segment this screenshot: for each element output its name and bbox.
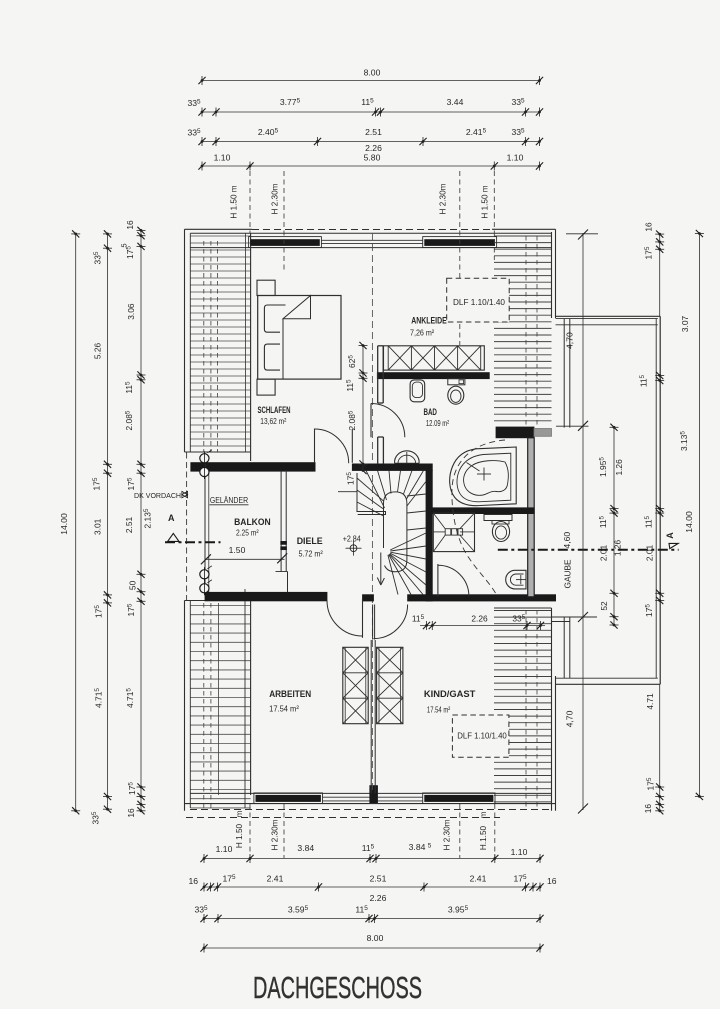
svg-text:13,62 m²: 13,62 m² xyxy=(260,416,286,426)
svg-text:4,70: 4,70 xyxy=(565,710,575,727)
bottom dim line 8.00 xyxy=(204,947,540,949)
corner bathtub inner rim xyxy=(457,453,511,502)
top dim line 33.5/3.77.5/11.5/3.44/33.5 xyxy=(202,111,540,113)
svg-text:17.54 m²: 17.54 m² xyxy=(269,703,299,713)
wardrobe column right xyxy=(377,647,403,723)
main wall stub inside dormer top xyxy=(563,319,565,428)
right chain R2 lower xyxy=(659,684,661,811)
svg-text:+2.84: +2.84 xyxy=(343,534,361,544)
top wall second face line xyxy=(190,232,551,234)
lintel lines between top windows xyxy=(321,239,422,241)
bottom wall inner face line xyxy=(190,792,551,794)
wall tub north xyxy=(496,427,534,438)
svg-text:KIND/GAST: KIND/GAST xyxy=(424,689,476,700)
svg-text:2.01: 2.01 xyxy=(645,545,655,562)
center wall post bottom wall xyxy=(370,786,378,803)
door SCHLAFEN leaf and swing xyxy=(314,429,316,463)
svg-text:7,26 m²: 7,26 m² xyxy=(410,328,434,338)
top wall outer face line xyxy=(185,228,253,230)
right strip section boundary xyxy=(494,607,552,609)
wall DIELE south / ARBEITEN north west part xyxy=(205,592,327,601)
svg-text:4.71: 4.71 xyxy=(645,693,655,710)
wall WC north (below tub) xyxy=(432,508,534,514)
svg-text:1.50: 1.50 xyxy=(229,545,246,555)
svg-text:1.10: 1.10 xyxy=(216,844,233,854)
balcony door post marks xyxy=(281,541,287,544)
balcony dimension 1.50 line xyxy=(205,558,285,560)
left dim line 14.00 xyxy=(75,234,77,811)
wall stub between door1 and door2 xyxy=(363,595,374,601)
svg-text:DK VORDACH: DK VORDACH xyxy=(134,491,181,500)
bottom dim line 1.10/3.84/11.5/3.84.5/1.10 xyxy=(204,858,540,860)
svg-text:2.41: 2.41 xyxy=(470,874,487,884)
svg-text:H.1.50: H.1.50 xyxy=(479,825,488,850)
top dim line 8.00 xyxy=(202,80,540,82)
stair treads upper fan xyxy=(357,471,426,517)
svg-text:H 2.30m: H 2.30m xyxy=(443,819,452,850)
svg-text:14.00: 14.00 xyxy=(684,511,694,533)
svg-text:SCHLAFEN: SCHLAFEN xyxy=(258,405,291,416)
right dim line 14.00 outer xyxy=(698,234,700,797)
interior chain x=363 (62.5/11.5/2.08.5) xyxy=(362,346,364,471)
extension bar at R3 top tick xyxy=(566,233,598,235)
wardrobe ANKLEIDE dividers and X pattern xyxy=(388,346,481,370)
H 1.50 dashed line top left xyxy=(249,171,251,233)
shower pattern xyxy=(433,513,474,552)
bed outline xyxy=(258,296,341,380)
DK VORDACH dashed eave line xyxy=(186,453,188,601)
svg-text:8.00: 8.00 xyxy=(367,933,384,943)
roof hatch strip bottom-left xyxy=(191,606,251,808)
section arrow right xyxy=(669,543,678,548)
svg-text:2.51: 2.51 xyxy=(370,874,387,884)
window W2 top (ANKLEIDE window) xyxy=(423,237,497,248)
shower drain squares xyxy=(445,529,451,535)
left dim chain L3 xyxy=(140,230,142,810)
svg-text:3.01: 3.01 xyxy=(93,518,103,535)
top wall inner face line xyxy=(190,247,551,249)
bath dashed swing curve xyxy=(452,440,505,596)
svg-text:DLF 1.10/1.40: DLF 1.10/1.40 xyxy=(457,732,507,741)
wall stair east xyxy=(426,471,432,602)
svg-text:8.00: 8.00 xyxy=(364,68,381,78)
wall ARBEITEN/KIND north east part xyxy=(408,595,556,601)
H dashed lines bottom xyxy=(249,804,251,858)
wall balcony east (DIELE west) xyxy=(280,471,282,572)
svg-text:16: 16 xyxy=(126,808,136,818)
svg-text:3.84: 3.84 xyxy=(297,843,314,853)
right chain R2 upper on dormer wall xyxy=(659,234,661,316)
svg-text:BALKON: BALKON xyxy=(234,517,271,528)
ridge dashed line (Firstlinie) xyxy=(371,233,373,793)
toilet WC bowl xyxy=(492,522,509,542)
svg-text:1.26: 1.26 xyxy=(614,459,624,476)
svg-text:14.00: 14.00 xyxy=(59,513,69,535)
eave dashed line below bottom wall 2 xyxy=(186,817,500,819)
top dim line 33.5/2.40.5/2.51/2.41.5/33.5 xyxy=(202,141,540,143)
svg-text:16: 16 xyxy=(188,876,198,886)
svg-text:3.07: 3.07 xyxy=(680,316,690,333)
H 2.30 dashed line top right xyxy=(459,171,461,345)
pillow 1 xyxy=(264,305,285,332)
main wall stub inside dormer bottom xyxy=(563,617,565,678)
dormer east wall double line xyxy=(659,316,661,684)
DLF roof window box bottom xyxy=(452,715,509,757)
svg-text:5.72 m²: 5.72 m² xyxy=(298,548,322,558)
eave dashed line below bottom wall 1 xyxy=(190,809,553,811)
stair treads lower fan xyxy=(388,533,426,595)
svg-text:H 2.30m: H 2.30m xyxy=(271,183,280,214)
window W1 top (SCHLAFEN balcony window) xyxy=(249,237,322,248)
svg-text:2.25 m²: 2.25 m² xyxy=(236,528,259,538)
washbasin BAD xyxy=(410,380,425,402)
svg-text:DACHGESCHOSS: DACHGESCHOSS xyxy=(253,970,422,1005)
height line solid inside left strips xyxy=(217,241,219,452)
svg-text:H 2.30m: H 2.30m xyxy=(439,183,448,214)
H 1.50 dashed line top right xyxy=(493,171,495,260)
svg-text:H 1.50: H 1.50 xyxy=(235,823,244,848)
svg-text:2.01: 2.01 xyxy=(599,545,609,562)
svg-text:BAD: BAD xyxy=(423,407,437,418)
bottom dim line 33.5/3.59.5/11.5/3.95.5 xyxy=(204,918,540,920)
wardrobe column left xyxy=(343,647,368,723)
door BAD leaf and swing xyxy=(370,404,372,438)
svg-text:3.06: 3.06 xyxy=(126,303,136,320)
wall DIELE/stair north xyxy=(352,464,432,471)
svg-text:GAUBE: GAUBE xyxy=(562,559,572,588)
shower tray xyxy=(433,513,474,552)
stair inner boundary xyxy=(357,473,386,515)
wall ANKLEIDE/BAD horizontal xyxy=(377,373,489,379)
svg-text:3.44: 3.44 xyxy=(447,97,464,107)
corner bathtub outer xyxy=(450,447,517,506)
svg-text:2.26: 2.26 xyxy=(370,893,387,903)
svg-text:H 2.30m: H 2.30m xyxy=(271,819,280,850)
right line R3 4.70 vertical xyxy=(582,233,584,810)
wardrobe ANKLEIDE outline xyxy=(384,346,485,370)
svg-text:A: A xyxy=(665,532,675,539)
hand basin WC xyxy=(506,570,526,589)
window W3 bottom (ARBEITEN) xyxy=(254,793,323,804)
svg-text:2.26: 2.26 xyxy=(365,143,382,153)
svg-text:1.10: 1.10 xyxy=(214,153,231,163)
svg-text:5.26: 5.26 xyxy=(93,343,103,360)
left strip inner edge (knee wall) xyxy=(250,233,252,461)
bottom dim line 16/17.5/2.41/2.51/2.41/17.5/16 xyxy=(204,886,540,888)
roof hatch strip bottom-right xyxy=(494,611,552,802)
left eave outer double line bottom section xyxy=(184,601,186,811)
dormer sill stub bottom xyxy=(552,616,598,618)
interior chain bottom y=625.5 (11.5/2.26/33.5) xyxy=(420,625,545,627)
svg-text:2.26: 2.26 xyxy=(471,614,488,624)
dormer sill stub top xyxy=(556,425,589,427)
small dim line at diele xyxy=(338,491,357,493)
balcony west edge line xyxy=(204,453,206,592)
blanket fold triangle xyxy=(283,296,311,319)
svg-text:m: m xyxy=(235,810,244,817)
left dim chain L2 xyxy=(107,234,109,809)
right strip outer wall double line bottom section xyxy=(551,608,553,811)
blanket fold line vertical xyxy=(282,319,284,379)
svg-text:1.26: 1.26 xyxy=(613,540,623,557)
DLF roof window box top xyxy=(447,278,510,322)
svg-text:2.51: 2.51 xyxy=(124,517,134,534)
roof hatch strip top-right xyxy=(494,236,552,421)
left strip section boundaries xyxy=(185,451,251,453)
svg-text:ANKLEIDE: ANKLEIDE xyxy=(411,314,447,325)
section line A-A left xyxy=(165,541,221,543)
height dashed lines inside right strips xyxy=(525,236,527,425)
wall SCHLAFEN/ANKLEIDE vertical xyxy=(377,346,379,403)
svg-text:DLF 1.10/1.40: DLF 1.10/1.40 xyxy=(453,298,505,307)
roof hatch strip top-left xyxy=(191,236,251,446)
svg-text:2.51: 2.51 xyxy=(365,127,382,137)
left eave outer double line top section xyxy=(184,229,186,452)
svg-text:H 1.50 m: H 1.50 m xyxy=(230,185,239,218)
pillow 2 xyxy=(264,344,280,370)
svg-text:4,60: 4,60 xyxy=(562,532,572,549)
section line A-A right xyxy=(498,549,679,551)
right chain R2 ticks on dormer wall xyxy=(655,372,664,379)
bathtub faucet cross xyxy=(477,473,491,475)
svg-text:16: 16 xyxy=(547,876,557,886)
svg-text:DIELE: DIELE xyxy=(297,536,324,547)
right chain R4 inner xyxy=(613,427,615,625)
H 2.30 dashed line top left xyxy=(283,171,285,272)
svg-text:52: 52 xyxy=(599,601,609,611)
bottom wall outer face line xyxy=(185,803,556,805)
svg-text:1.10: 1.10 xyxy=(507,153,524,163)
svg-text:50: 50 xyxy=(128,580,138,590)
svg-text:A: A xyxy=(168,513,175,523)
svg-text:16: 16 xyxy=(644,222,654,232)
svg-text:m: m xyxy=(479,811,488,818)
nightstand bottom xyxy=(257,379,275,395)
svg-text:16: 16 xyxy=(643,804,653,814)
wall BAD/WC east xyxy=(528,438,535,597)
wall ARBEITEN/KIND-GAST vertical double xyxy=(370,640,372,793)
sill lines between bottom windows xyxy=(323,796,423,798)
svg-text:16: 16 xyxy=(125,220,135,230)
stair inner eye stadium xyxy=(384,492,407,572)
svg-text:ARBEITEN: ARBEITEN xyxy=(269,689,311,700)
nightstand top xyxy=(257,280,275,295)
svg-text:1.10: 1.10 xyxy=(511,847,528,857)
svg-text:H 1.50 m: H 1.50 m xyxy=(481,185,490,218)
stair walk arrow xyxy=(380,553,382,584)
stair treads middle horizontals xyxy=(407,494,426,530)
svg-text:4,70: 4,70 xyxy=(565,332,575,349)
corner bathtub basin xyxy=(464,461,509,496)
round basin on stair wall xyxy=(395,451,420,463)
section arrow left xyxy=(168,533,179,541)
wall BAD west (pipe wall) xyxy=(377,437,379,464)
svg-text:12.09 m²: 12.09 m² xyxy=(426,418,449,428)
svg-text:5.80: 5.80 xyxy=(364,153,381,163)
svg-text:GELÄNDER: GELÄNDER xyxy=(210,495,248,505)
toilet WC tank xyxy=(484,515,512,521)
toilet BAD xyxy=(448,379,465,385)
right strip outer wall double line top section xyxy=(551,232,553,318)
wall SCHLAFEN south (balcony top wall) xyxy=(191,463,315,472)
dormer south wall double line xyxy=(556,683,661,685)
svg-text:17.54 m²: 17.54 m² xyxy=(427,705,451,715)
dormer north wall double line xyxy=(556,315,661,317)
window W4 bottom (KIND/GAST) xyxy=(423,793,495,804)
GELAENDER underline xyxy=(210,504,249,506)
door ARBEITEN leaf and swing xyxy=(362,599,364,638)
height dashed lines inside left strips xyxy=(203,241,205,452)
railing post circles xyxy=(200,454,209,463)
svg-text:2.41: 2.41 xyxy=(267,874,284,884)
door WC leaf and swing xyxy=(437,564,439,597)
top dim line 1.10/5.80/1.10 xyxy=(202,165,540,167)
door KIND/GAST leaf and swing xyxy=(372,605,374,640)
